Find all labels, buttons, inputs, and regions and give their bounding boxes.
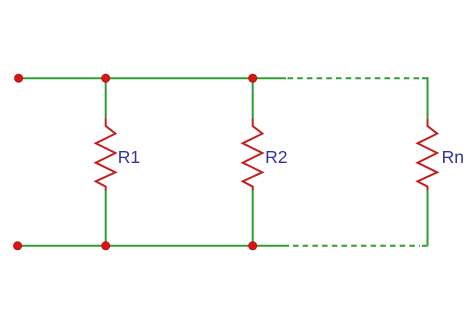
- wire bottom-right corner from Rn branch: [422, 245, 428, 247]
- wire top-right corner into Rn branch: [422, 78, 428, 118]
- wire top bus solid segment: [18, 77, 286, 79]
- svg-text:R2: R2: [265, 147, 287, 167]
- node dot top R2 junction: [249, 74, 257, 82]
- wire bottom bus dashed segment: [293, 245, 420, 247]
- resistor Rn: [418, 118, 438, 190]
- node dot top R1 junction: [102, 74, 110, 82]
- svg-text:R1: R1: [118, 147, 140, 167]
- svg-text:Rn: Rn: [442, 147, 464, 167]
- wire Rn bottom branch: [427, 190, 429, 246]
- wire R1 bottom branch: [105, 190, 107, 246]
- node dot bottom-left input: [14, 242, 22, 250]
- wire R1 top branch: [105, 78, 107, 118]
- node dot top-left input: [15, 74, 23, 82]
- wire bottom bus solid segment: [18, 245, 289, 247]
- wire R2 top branch: [252, 78, 254, 118]
- resistor R2: [243, 118, 263, 190]
- node dot bottom R1 junction: [102, 242, 110, 250]
- resistor R1: [96, 118, 116, 190]
- node dot bottom R2 junction: [249, 242, 257, 250]
- wire top bus dashed segment: [288, 77, 421, 79]
- wire R2 bottom branch: [252, 190, 254, 246]
